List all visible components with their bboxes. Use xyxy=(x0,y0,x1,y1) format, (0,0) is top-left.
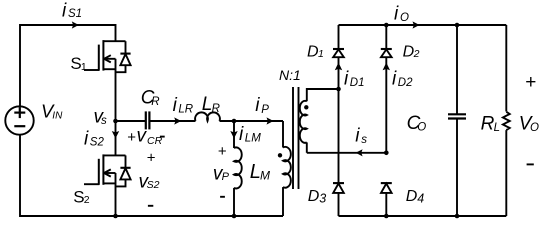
label i_s xyxy=(355,126,367,147)
svg-text:S1: S1 xyxy=(68,8,82,20)
node v_s xyxy=(113,119,118,124)
label i_P xyxy=(255,95,269,116)
label +v_S2- xyxy=(139,149,160,192)
label i_D2 xyxy=(392,69,413,90)
wire v_s to S2 drain xyxy=(115,121,117,155)
source V_IN xyxy=(5,106,33,134)
svg-text:i: i xyxy=(355,126,360,147)
wire main leg S1 source to node vs xyxy=(115,59,117,121)
label D1 xyxy=(307,43,324,60)
svg-text:i: i xyxy=(344,69,349,90)
svg-text:2: 2 xyxy=(84,194,90,206)
label D2 xyxy=(403,43,420,60)
svg-text:S2: S2 xyxy=(147,179,160,191)
svg-text:IN: IN xyxy=(52,111,63,122)
svg-text:s: s xyxy=(101,115,107,127)
label L_M xyxy=(250,161,270,183)
diode D3 xyxy=(333,183,344,216)
wire left bridge leg middle xyxy=(338,89,340,183)
svg-text:i: i xyxy=(239,124,244,145)
polarity dot primary xyxy=(278,153,282,157)
label D3 xyxy=(308,188,326,206)
transformer core xyxy=(292,87,294,189)
label N:1 xyxy=(279,67,301,83)
label v_s xyxy=(94,107,108,128)
svg-text:LR: LR xyxy=(178,104,193,116)
svg-text:O: O xyxy=(417,122,426,134)
svg-text:R: R xyxy=(151,96,159,108)
label L_R xyxy=(202,94,220,115)
svg-text:i: i xyxy=(62,0,67,21)
svg-text:L: L xyxy=(494,122,500,134)
wire i_s (secondary bottom to right leg) xyxy=(307,152,387,154)
junction C_O-top xyxy=(455,23,460,28)
junction C_O-bottom xyxy=(455,214,460,219)
junction i_LM xyxy=(232,119,237,124)
svg-text:i: i xyxy=(84,128,89,149)
svg-text:O: O xyxy=(530,122,539,134)
svg-text:R: R xyxy=(212,103,220,115)
svg-text:+: + xyxy=(525,72,536,93)
current arrow i_D2 xyxy=(383,63,390,71)
svg-text:D1: D1 xyxy=(350,77,365,89)
wire top rail (output) xyxy=(339,24,507,26)
node secondary-left-leg xyxy=(336,87,341,92)
label C_R xyxy=(141,87,160,108)
wire top-left rail xyxy=(20,25,116,106)
resistor R_L xyxy=(503,25,510,216)
svg-text:v: v xyxy=(137,126,148,147)
label i_LM xyxy=(239,124,261,145)
inductor L_M xyxy=(234,147,242,188)
label i_O xyxy=(394,4,409,25)
wire L_M bottom xyxy=(233,188,235,216)
junction S2-bottom xyxy=(113,214,118,219)
svg-text:D: D xyxy=(308,188,320,205)
svg-text:s: s xyxy=(361,134,367,146)
body diode of S2 xyxy=(116,155,131,186)
wire v_s to C_R xyxy=(116,120,146,122)
svg-text:+: + xyxy=(218,143,227,160)
svg-text:D2: D2 xyxy=(398,77,413,89)
svg-text:+: + xyxy=(127,129,136,146)
capacitor C_O xyxy=(448,25,466,216)
current arrow i_s xyxy=(356,149,363,156)
svg-text:i: i xyxy=(392,69,397,90)
diode D4 xyxy=(381,183,392,216)
label i_S2 xyxy=(84,128,104,149)
label i_D1 xyxy=(344,69,365,90)
diode D1 xyxy=(333,25,344,89)
label - output xyxy=(527,163,534,165)
svg-text:i: i xyxy=(255,95,260,116)
svg-text:N:1: N:1 xyxy=(279,67,301,83)
svg-text:2: 2 xyxy=(413,48,420,60)
current arrow i_O xyxy=(413,21,420,28)
label C_O xyxy=(407,113,427,134)
current arrow i_D1 xyxy=(335,63,342,71)
svg-text:O: O xyxy=(400,12,409,24)
svg-text:+: + xyxy=(147,149,156,166)
wire L_M branch top xyxy=(233,121,235,148)
svg-text:D: D xyxy=(406,188,418,205)
inductor L_R xyxy=(195,112,220,121)
current arrow i_LM xyxy=(230,131,237,139)
label V_IN xyxy=(41,100,63,121)
transistor S1 xyxy=(84,40,126,70)
svg-text:i: i xyxy=(394,4,399,25)
label i_S1 xyxy=(62,0,82,21)
svg-text:1: 1 xyxy=(81,61,87,73)
junction i_s-right-leg xyxy=(384,151,389,156)
junction D2-top xyxy=(384,23,389,28)
wire C_R to L_R xyxy=(150,120,196,122)
svg-text:S2: S2 xyxy=(90,136,105,148)
current arrow i_P xyxy=(267,117,274,124)
wire left vertical bottom xyxy=(20,135,283,216)
junction D4-bottom xyxy=(384,214,389,219)
transistor S2 xyxy=(84,154,126,184)
wire bottom rail (output) xyxy=(339,215,507,217)
svg-text:1: 1 xyxy=(318,48,324,60)
body diode of S1 xyxy=(116,41,131,72)
label S2 xyxy=(73,187,90,206)
capacitor C_R xyxy=(146,111,150,129)
label S1 xyxy=(70,54,87,73)
svg-text:P: P xyxy=(261,104,269,116)
wire L_R to transformer primary xyxy=(220,120,284,122)
svg-text:i: i xyxy=(173,95,178,116)
label +v_CR- xyxy=(127,126,162,147)
svg-text:M: M xyxy=(260,169,270,183)
polarity dot secondary xyxy=(304,105,308,109)
transformer primary winding xyxy=(282,121,284,148)
label V_O xyxy=(519,113,539,134)
diode D2 xyxy=(381,25,392,153)
junction L_M-bottom xyxy=(232,214,237,219)
current arrow i_LR xyxy=(174,117,181,124)
svg-text:LM: LM xyxy=(245,132,261,144)
label D4 xyxy=(406,188,424,206)
svg-text:4: 4 xyxy=(417,191,424,205)
label + output xyxy=(525,72,536,93)
label i_LR xyxy=(173,95,194,116)
wire S2 source to bottom rail xyxy=(115,173,117,216)
svg-text:P: P xyxy=(222,171,230,183)
current arrow i_S1 xyxy=(72,21,79,28)
label R_L xyxy=(481,113,500,134)
svg-text:3: 3 xyxy=(319,191,326,205)
label +v_P- xyxy=(213,143,230,184)
transformer secondary winding xyxy=(307,89,339,101)
current arrow i_S2 xyxy=(112,131,119,139)
svg-text:R: R xyxy=(481,113,495,134)
